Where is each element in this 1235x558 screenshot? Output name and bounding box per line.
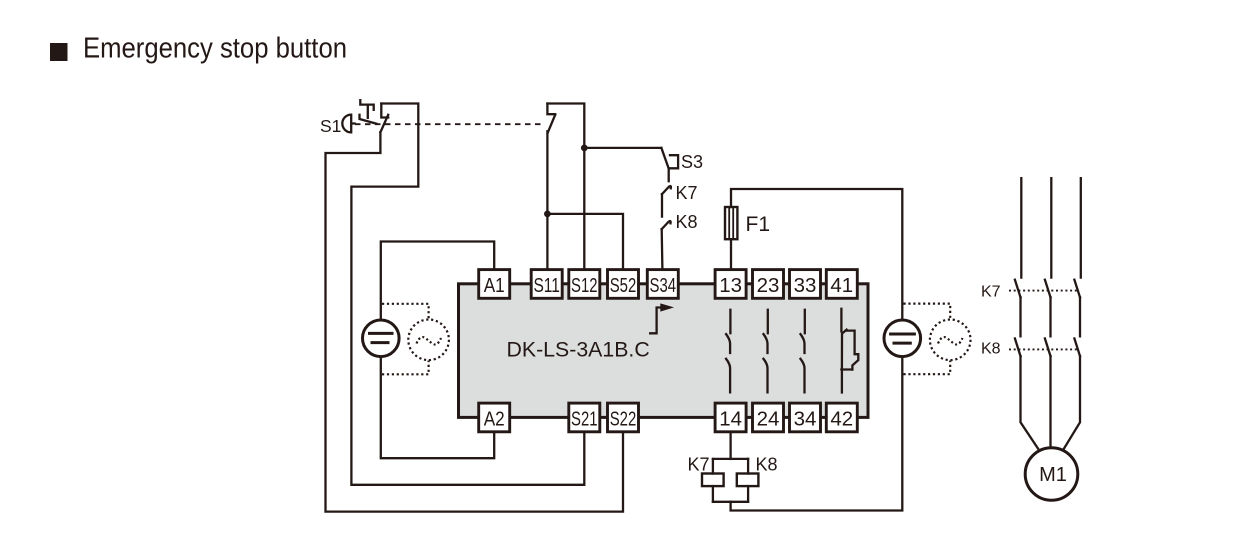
coil K7 branch wire	[712, 459, 714, 474]
terminal 41	[826, 270, 857, 299]
S1 contact 1 terminal	[381, 104, 388, 118]
title bullet square	[50, 43, 68, 61]
svg-text:24: 24	[757, 408, 780, 431]
left AC tilde	[417, 337, 442, 344]
svg-text:K7: K7	[688, 455, 710, 475]
relay contact 23-24	[764, 310, 768, 393]
terminal S22	[608, 403, 639, 432]
terminal 23	[753, 270, 784, 299]
svg-text:K7: K7	[981, 284, 1001, 301]
svg-text:41: 41	[830, 274, 853, 297]
K8 NO contact blade	[662, 221, 671, 229]
coil bottom bar	[713, 501, 748, 503]
phase mid segments	[1021, 297, 1081, 336]
motor lead L1	[1021, 356, 1039, 448]
right AC tilde	[938, 337, 963, 344]
svg-text:13: 13	[719, 274, 742, 297]
terminal labels top row	[484, 274, 854, 431]
svg-text:S11: S11	[533, 274, 560, 297]
svg-text:DK-LS-3A1B.C: DK-LS-3A1B.C	[507, 338, 650, 362]
coil K8 lower wire	[747, 486, 749, 502]
dashed mechanical link	[355, 123, 545, 125]
wire A2 to left supply bottom	[381, 358, 494, 458]
wire contact2 top to S12	[547, 104, 584, 270]
S1 contact 2 terminal	[547, 104, 555, 115]
terminal A2	[479, 403, 510, 432]
contactor K8 dotted link	[1009, 348, 1077, 350]
relay contact 13-14	[726, 310, 730, 393]
terminal 33	[790, 270, 821, 299]
wire K8 to S34	[661, 229, 664, 270]
wire contact1 top loop to S21	[351, 104, 584, 485]
wire 13 to fuse	[730, 239, 732, 269]
svg-text:33: 33	[794, 274, 817, 297]
svg-text:42: 42	[830, 408, 853, 431]
left dotted AC circle	[408, 320, 449, 361]
svg-text:14: 14	[719, 408, 742, 431]
right supply loop bottom	[731, 358, 903, 511]
svg-text:K8: K8	[676, 212, 698, 232]
coil K7 lower wire	[712, 486, 714, 502]
terminal 13	[715, 270, 746, 299]
S1 actuator bar	[360, 100, 377, 124]
motor lead L3	[1064, 356, 1080, 448]
relay contact 41-42 NC	[841, 309, 851, 393]
relay internal reset arrow	[650, 308, 664, 334]
left supply DC source circle	[363, 320, 400, 357]
three phase line L3	[1080, 178, 1082, 277]
S1 contact 1 blade	[380, 115, 388, 133]
wire S3 branch	[584, 147, 661, 149]
svg-text:S22: S22	[610, 408, 637, 431]
K7 NO contact blade	[662, 186, 671, 194]
coil K8 box	[737, 474, 759, 487]
terminal 34	[790, 403, 821, 432]
terminal A1	[479, 270, 510, 299]
terminal 24	[753, 403, 784, 432]
right dotted link top	[904, 304, 951, 320]
svg-text:K7: K7	[676, 183, 698, 203]
svg-text:S12: S12	[571, 274, 598, 297]
wire fuse top loop right	[731, 189, 902, 319]
right DC symbol lines	[891, 334, 915, 343]
svg-text:S1: S1	[320, 116, 341, 136]
svg-text:34: 34	[794, 408, 817, 431]
fuse F1 body	[725, 207, 737, 239]
relay contact 33-34	[801, 310, 805, 393]
contactor K7 blades	[1015, 280, 1080, 298]
coil top bar	[713, 458, 748, 460]
svg-text:A2: A2	[484, 408, 505, 431]
coil K8 branch wire	[747, 459, 749, 474]
terminal S21	[569, 403, 600, 432]
svg-text:K8: K8	[981, 341, 1001, 358]
terminal S52	[608, 270, 639, 299]
contactor K8 blades	[1015, 339, 1080, 357]
relay contact 41-42 guide bracket	[846, 331, 858, 370]
wire S3 to K7 contact	[668, 169, 670, 182]
svg-text:F1: F1	[746, 213, 771, 236]
contactor K7 dotted link	[1009, 290, 1077, 292]
S1 contact 2 blade	[548, 115, 555, 133]
motor lead L2	[1049, 356, 1051, 448]
svg-text:M1: M1	[1039, 464, 1067, 486]
svg-text:K8: K8	[756, 455, 778, 475]
motor M1 circle	[1025, 448, 1078, 501]
node junction S3 branch	[581, 145, 588, 152]
left dotted link bottom	[382, 361, 429, 375]
three phase line L2	[1050, 178, 1052, 277]
wire contact2 bottom to S11	[546, 131, 548, 269]
fuse F1 inner lines	[729, 207, 733, 239]
svg-text:S3: S3	[681, 152, 703, 172]
S3 actuator bracket	[669, 155, 678, 168]
svg-text:23: 23	[757, 274, 780, 297]
node junction S52 branch	[544, 211, 551, 218]
left dotted link top	[382, 304, 429, 320]
terminal S11	[531, 270, 562, 299]
left DC symbol lines	[370, 333, 393, 342]
wire contact1 bottom to S22	[326, 132, 624, 511]
wire K7 to K8 contact	[661, 194, 663, 217]
right dotted AC circle	[930, 320, 971, 361]
relay box U1 body	[459, 284, 869, 418]
wire S52 branch	[547, 214, 623, 270]
terminal 14	[715, 403, 746, 432]
terminal S12	[569, 270, 600, 299]
S3 reset switch blade	[661, 148, 668, 169]
terminal 42	[826, 403, 857, 432]
svg-text:Emergency stop button: Emergency stop button	[83, 33, 347, 65]
coil K7 box	[702, 474, 724, 487]
svg-text:S52: S52	[610, 274, 637, 297]
right dotted link bottom	[904, 361, 951, 375]
svg-text:S21: S21	[571, 408, 598, 431]
svg-text:A1: A1	[484, 274, 505, 297]
terminal boxes	[479, 270, 858, 432]
wire A1 to left supply top	[381, 242, 494, 319]
terminal S34	[647, 270, 678, 299]
S1 mushroom head	[342, 115, 354, 133]
right supply DC source circle	[884, 320, 921, 357]
svg-text:S34: S34	[650, 274, 677, 297]
three phase line L1	[1020, 178, 1022, 277]
wire 14 to coils	[729, 432, 731, 459]
